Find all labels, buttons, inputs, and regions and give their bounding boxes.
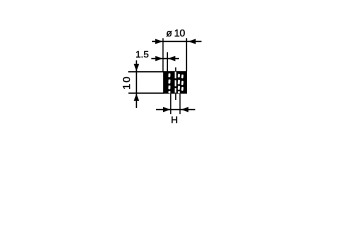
dimension line 1.5 <box>151 58 179 59</box>
extension line left (o10 / 1.5) <box>162 38 163 71</box>
wheel cross-section (solid black rectangle) <box>163 71 187 94</box>
extension line bottom (10) <box>128 93 163 94</box>
abrasive hatch white dash column 1 <box>168 73 170 93</box>
arrowhead left (H, points right) <box>163 107 170 112</box>
arrowhead right (1.5, points left) <box>168 56 175 61</box>
svg-text:H: H <box>171 115 178 126</box>
extension line right (o10) <box>186 38 187 71</box>
centerline below section <box>175 94 176 100</box>
arrowhead top (10, points down) <box>134 64 139 71</box>
svg-text:1.5: 1.5 <box>135 50 148 61</box>
arrowhead right (H, points left) <box>181 107 188 112</box>
extension line left (H) <box>170 94 171 114</box>
extension line right (H) <box>179 94 180 114</box>
dimension line diameter 10 <box>152 41 202 42</box>
arrowhead left (1.5, points right) <box>155 56 162 61</box>
arrowhead bottom (10, points up) <box>134 94 139 101</box>
abrasive hatch white dash column 3 <box>181 74 183 90</box>
extension line top (10) <box>128 71 164 72</box>
dimension line 10 (vertical) <box>136 60 137 108</box>
dimension line H <box>156 109 195 110</box>
arrowhead left (o10, points right) <box>155 39 162 44</box>
centerline above section <box>175 67 176 71</box>
svg-text:10: 10 <box>121 75 133 89</box>
extension line right (1.5) <box>167 52 168 71</box>
svg-text:ø 10: ø 10 <box>166 29 186 40</box>
centerline inside section (white dashed) <box>175 72 177 93</box>
abrasive hatch white dash column 2 <box>178 74 180 94</box>
arrowhead right (o10, points left) <box>188 39 195 44</box>
